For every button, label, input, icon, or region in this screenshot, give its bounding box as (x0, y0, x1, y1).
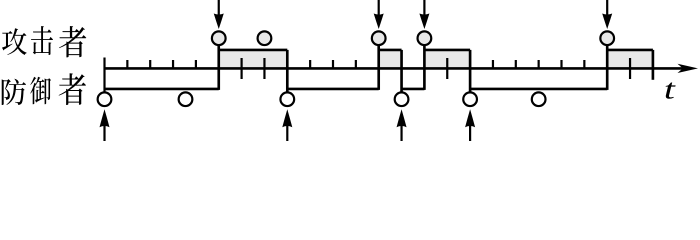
tick n=4 (195, 60, 197, 68)
defense arrow 3 (up) (400, 124, 402, 141)
tick n=20 (560, 60, 562, 68)
node: attacker circle 5 (600, 31, 614, 45)
node: defender circle 2 (179, 92, 193, 106)
tick n=10 (332, 60, 334, 68)
axis label t (666, 82, 676, 98)
node: attacker circle 4 (418, 31, 432, 45)
attack arrow 2 (down) (378, 0, 380, 16)
wire: attacker-level segment (424, 49, 470, 52)
wire: defender-level segment (105, 88, 219, 91)
node: defender circle 3 (280, 92, 294, 106)
node: attacker circle 3 (372, 31, 386, 45)
wire: step-up edge (377, 46, 380, 90)
wire: step-up edge (606, 46, 609, 90)
attack arrow 3 (down) (423, 0, 425, 16)
tick n=11 (355, 60, 357, 68)
wire: defender-level segment (287, 88, 378, 91)
node: attacker circle 2 (258, 31, 272, 45)
tick n=2 (149, 60, 151, 68)
long tick n=6 (241, 58, 243, 79)
tick n=19 (538, 60, 540, 68)
defense arrow 1 (up) (103, 124, 105, 141)
long tick n=15 (446, 58, 448, 79)
wire: step-up edge (217, 46, 220, 90)
wire: final step-down edge (652, 50, 655, 80)
axis arrowhead (678, 64, 699, 73)
tick n=18 (515, 60, 517, 68)
wire: attacker-level segment (379, 49, 402, 52)
node: defender circle 4 (395, 92, 409, 106)
long tick n=23 (629, 58, 631, 79)
shaded attack period 3 (424, 50, 470, 69)
wire: defender-level segment (470, 88, 607, 91)
attack arrow 1 (down) (218, 0, 220, 16)
tick n=21 (583, 60, 585, 68)
wire: defender-level segment (402, 88, 425, 91)
defense arrow 2 (up) (286, 124, 288, 141)
tick n=9 (309, 60, 311, 68)
attack arrow 4 (down) (606, 0, 608, 16)
wire: step-up edge (423, 46, 426, 90)
wire: step-down edge (400, 50, 403, 92)
wire: step-down edge (469, 50, 472, 92)
node: defender circle 5 (463, 92, 477, 106)
tick n=1 (126, 60, 128, 68)
wire: step-down edge (286, 50, 289, 92)
time axis (105, 67, 690, 70)
defense arrow 4 (up) (469, 124, 471, 141)
node: defender circle 6 (532, 92, 546, 106)
tick n=3 (172, 60, 174, 68)
node: attacker circle 1 (212, 31, 226, 45)
shaded attack period 4 (607, 50, 653, 69)
long tick n=7 (263, 58, 265, 79)
axis origin marker (103, 58, 105, 93)
wire: attacker-level segment (219, 49, 288, 52)
node: defender circle 1 (98, 92, 112, 106)
label 攻击者 (attacker) / 防御者 (defender) (2, 26, 87, 105)
wire: attacker-level segment (607, 49, 653, 52)
shaded attack period 1 (219, 50, 288, 69)
shaded attack period 2 (379, 50, 402, 69)
tick n=17 (492, 60, 494, 68)
